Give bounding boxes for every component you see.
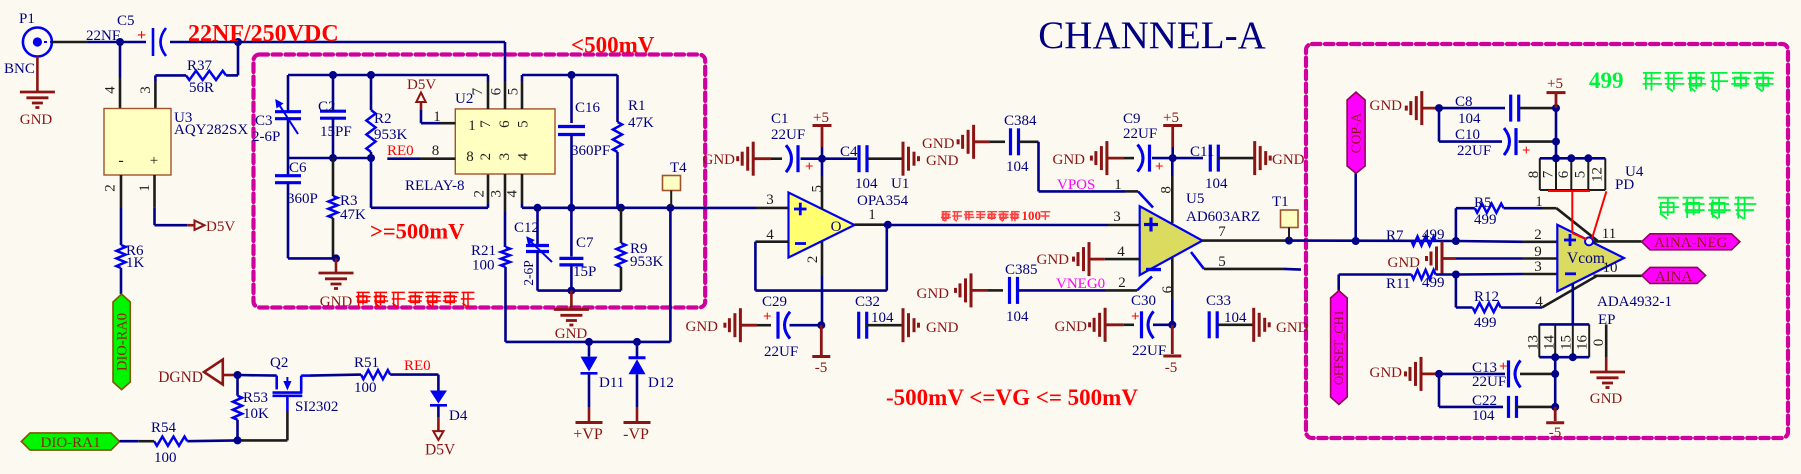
svg-text:104: 104 bbox=[1205, 176, 1228, 192]
svg-text:COP-A: COP-A bbox=[1349, 113, 1364, 154]
svg-text:360PF: 360PF bbox=[571, 143, 610, 159]
svg-text:C30: C30 bbox=[1131, 293, 1156, 309]
svg-text:GND: GND bbox=[1590, 391, 1623, 407]
svg-text:GND: GND bbox=[686, 319, 719, 335]
svg-text:GND: GND bbox=[320, 294, 353, 310]
svg-text:5: 5 bbox=[1573, 171, 1589, 179]
svg-text:R51: R51 bbox=[354, 355, 379, 371]
svg-text:Q2: Q2 bbox=[270, 355, 288, 371]
svg-text:953K: 953K bbox=[374, 127, 408, 143]
svg-text:14: 14 bbox=[1541, 335, 1557, 351]
svg-text:+: + bbox=[805, 159, 814, 175]
svg-text:-5: -5 bbox=[1549, 425, 1562, 441]
svg-text:9: 9 bbox=[1534, 244, 1542, 260]
svg-text:22UF: 22UF bbox=[1457, 143, 1491, 159]
svg-text:15PF: 15PF bbox=[320, 124, 352, 140]
svg-text:2: 2 bbox=[478, 153, 494, 161]
svg-text:+: + bbox=[150, 153, 158, 169]
svg-text:4: 4 bbox=[102, 86, 118, 94]
svg-text:6: 6 bbox=[497, 120, 513, 128]
svg-text:2: 2 bbox=[805, 256, 821, 264]
svg-text:C16: C16 bbox=[575, 100, 601, 116]
svg-text:22UF: 22UF bbox=[1472, 374, 1506, 390]
svg-text:8: 8 bbox=[466, 149, 474, 165]
svg-text:+: + bbox=[1155, 159, 1164, 175]
svg-text:22UF: 22UF bbox=[764, 344, 798, 360]
svg-text:2: 2 bbox=[1118, 275, 1126, 291]
svg-text:GND: GND bbox=[703, 152, 736, 168]
svg-text:R54: R54 bbox=[151, 420, 177, 436]
svg-text:GND: GND bbox=[1272, 152, 1305, 168]
svg-text:C33: C33 bbox=[1206, 293, 1231, 309]
svg-text:OPA354: OPA354 bbox=[857, 193, 909, 209]
svg-text:22NF/250VDC: 22NF/250VDC bbox=[188, 21, 339, 47]
svg-text:C11: C11 bbox=[1190, 144, 1214, 160]
svg-text:6: 6 bbox=[1556, 170, 1572, 178]
svg-text:499: 499 bbox=[1474, 212, 1497, 228]
svg-text:2: 2 bbox=[472, 190, 488, 198]
svg-text:C1: C1 bbox=[771, 111, 789, 127]
svg-text:4: 4 bbox=[1117, 244, 1125, 260]
svg-text:499: 499 bbox=[1422, 227, 1445, 243]
svg-text:GND: GND bbox=[1037, 252, 1070, 268]
svg-text:OFFSET_CH1: OFFSET_CH1 bbox=[1332, 310, 1346, 385]
svg-text:-500mV <=VG <= 500mV: -500mV <=VG <= 500mV bbox=[886, 385, 1138, 410]
svg-text:O: O bbox=[831, 219, 842, 235]
svg-text:3: 3 bbox=[1534, 259, 1542, 275]
svg-text:C3: C3 bbox=[255, 113, 273, 129]
svg-text:-5: -5 bbox=[1165, 360, 1178, 376]
svg-text:RELAY-8: RELAY-8 bbox=[405, 178, 464, 194]
svg-text:100: 100 bbox=[1022, 208, 1042, 223]
svg-text:15P: 15P bbox=[573, 264, 596, 280]
svg-text:13: 13 bbox=[1526, 335, 1542, 350]
svg-text:T4: T4 bbox=[670, 160, 687, 176]
svg-text:RE0: RE0 bbox=[387, 143, 414, 159]
svg-text:T1: T1 bbox=[1272, 194, 1289, 210]
svg-text:104: 104 bbox=[1006, 309, 1029, 325]
svg-text:499: 499 bbox=[1589, 68, 1624, 93]
svg-text:2-6P: 2-6P bbox=[521, 260, 536, 286]
svg-text:100: 100 bbox=[154, 450, 177, 466]
svg-text:-: - bbox=[118, 152, 123, 169]
svg-text:104: 104 bbox=[1472, 408, 1495, 424]
svg-text:U1: U1 bbox=[891, 176, 909, 192]
svg-text:P1: P1 bbox=[19, 11, 35, 27]
svg-text:5: 5 bbox=[506, 88, 522, 96]
svg-text:4: 4 bbox=[1535, 294, 1543, 310]
svg-text:3: 3 bbox=[488, 190, 504, 198]
svg-text:C9: C9 bbox=[1123, 111, 1141, 127]
svg-text:C6: C6 bbox=[289, 160, 307, 176]
svg-text:D5V: D5V bbox=[425, 442, 456, 459]
svg-text:104: 104 bbox=[871, 310, 894, 326]
svg-text:C5: C5 bbox=[117, 13, 135, 29]
svg-text:GND: GND bbox=[20, 112, 53, 128]
svg-text:ADA4932-1: ADA4932-1 bbox=[1597, 294, 1672, 310]
svg-text:-VP: -VP bbox=[623, 426, 649, 443]
svg-text:10: 10 bbox=[1603, 260, 1618, 276]
svg-text:GND: GND bbox=[926, 153, 959, 169]
svg-text:DGND: DGND bbox=[158, 369, 203, 386]
svg-text:1K: 1K bbox=[126, 255, 145, 271]
svg-text:C32: C32 bbox=[855, 294, 880, 310]
svg-text:22UF: 22UF bbox=[1123, 126, 1157, 142]
svg-text:22NF: 22NF bbox=[86, 28, 120, 44]
svg-text:+: + bbox=[137, 27, 146, 44]
svg-text:6: 6 bbox=[1160, 285, 1176, 293]
svg-text:11: 11 bbox=[1602, 226, 1616, 242]
svg-text:GND: GND bbox=[1276, 320, 1309, 336]
svg-text:R5: R5 bbox=[1474, 195, 1492, 211]
svg-text:7: 7 bbox=[470, 87, 486, 95]
svg-text:+: + bbox=[763, 309, 772, 325]
svg-text:C7: C7 bbox=[576, 235, 594, 251]
svg-text:1: 1 bbox=[468, 118, 476, 134]
svg-text:22UF: 22UF bbox=[1132, 343, 1166, 359]
svg-text:3: 3 bbox=[766, 192, 774, 208]
svg-text:3: 3 bbox=[1113, 209, 1121, 225]
svg-text:GND: GND bbox=[1370, 365, 1403, 381]
svg-text:499: 499 bbox=[1422, 275, 1445, 291]
svg-text:AINA: AINA bbox=[1655, 269, 1693, 285]
svg-text:RE0: RE0 bbox=[404, 358, 431, 374]
svg-text:3: 3 bbox=[138, 86, 154, 94]
svg-text:47K: 47K bbox=[340, 207, 366, 223]
svg-text:D11: D11 bbox=[599, 375, 624, 391]
svg-text:360P: 360P bbox=[287, 191, 318, 207]
svg-text:C385: C385 bbox=[1005, 262, 1038, 278]
svg-text:104: 104 bbox=[1006, 159, 1029, 175]
svg-text:R12: R12 bbox=[1474, 289, 1499, 305]
svg-text:C10: C10 bbox=[1455, 127, 1480, 143]
svg-text:<500mV: <500mV bbox=[571, 33, 655, 58]
svg-text:AQY282SX: AQY282SX bbox=[174, 122, 248, 138]
svg-text:D5V: D5V bbox=[206, 219, 235, 235]
svg-text:DIO-RA0: DIO-RA0 bbox=[115, 313, 131, 371]
svg-text:GND: GND bbox=[917, 286, 950, 302]
svg-text:953K: 953K bbox=[630, 254, 664, 270]
svg-text:7: 7 bbox=[478, 120, 494, 128]
svg-text:8: 8 bbox=[432, 143, 440, 159]
svg-text:1: 1 bbox=[868, 207, 876, 223]
svg-text:8: 8 bbox=[1158, 186, 1174, 194]
svg-text:104: 104 bbox=[855, 176, 878, 192]
svg-text:100: 100 bbox=[354, 380, 377, 396]
svg-text:+VP: +VP bbox=[573, 426, 603, 443]
svg-text:DIO-RA1: DIO-RA1 bbox=[41, 435, 101, 451]
svg-text:>=500mV: >=500mV bbox=[370, 219, 464, 244]
svg-text:7: 7 bbox=[1541, 170, 1557, 178]
svg-text:15: 15 bbox=[1558, 335, 1574, 350]
svg-text:AINA-NEG: AINA-NEG bbox=[1654, 235, 1727, 251]
svg-text:0: 0 bbox=[1591, 339, 1607, 347]
svg-text:56R: 56R bbox=[189, 80, 214, 96]
svg-text:4: 4 bbox=[766, 227, 774, 243]
svg-text:VNEG0: VNEG0 bbox=[1056, 276, 1105, 292]
svg-text:1: 1 bbox=[1114, 177, 1122, 193]
svg-text:2: 2 bbox=[103, 184, 119, 192]
svg-text:R1: R1 bbox=[628, 98, 646, 114]
svg-text:+5: +5 bbox=[1163, 110, 1179, 126]
svg-text:10K: 10K bbox=[243, 406, 269, 422]
svg-text:+5: +5 bbox=[813, 110, 829, 126]
svg-text:C384: C384 bbox=[1004, 113, 1037, 129]
svg-text:GND: GND bbox=[555, 326, 588, 342]
svg-text:GND: GND bbox=[1053, 152, 1086, 168]
svg-text:R53: R53 bbox=[243, 390, 268, 406]
svg-text:+: + bbox=[1522, 143, 1531, 159]
svg-text:5: 5 bbox=[516, 120, 532, 128]
svg-text:GND: GND bbox=[1388, 255, 1421, 271]
svg-text:7: 7 bbox=[1218, 224, 1226, 240]
svg-text:R11: R11 bbox=[1386, 276, 1410, 292]
svg-text:2: 2 bbox=[1534, 227, 1542, 243]
svg-text:47K: 47K bbox=[628, 115, 654, 131]
svg-text:D4: D4 bbox=[449, 408, 468, 424]
svg-text:6: 6 bbox=[488, 87, 504, 95]
svg-text:AD603ARZ: AD603ARZ bbox=[1186, 209, 1260, 225]
svg-text:R37: R37 bbox=[187, 58, 213, 74]
svg-text:4: 4 bbox=[516, 152, 532, 160]
svg-text:VPOS: VPOS bbox=[1057, 177, 1095, 193]
svg-text:22UF: 22UF bbox=[771, 127, 805, 143]
svg-text:Vcom: Vcom bbox=[1567, 250, 1605, 267]
svg-text:C8: C8 bbox=[1455, 94, 1473, 110]
svg-text:499: 499 bbox=[1474, 315, 1497, 331]
svg-text:GND: GND bbox=[926, 320, 959, 336]
svg-text:GND: GND bbox=[922, 136, 955, 152]
svg-text:C22: C22 bbox=[1472, 393, 1497, 409]
svg-text:3: 3 bbox=[497, 153, 513, 161]
svg-text:+: + bbox=[1499, 359, 1508, 375]
svg-text:GND: GND bbox=[1055, 319, 1088, 335]
svg-text:C12: C12 bbox=[514, 220, 539, 236]
svg-text:PD: PD bbox=[1615, 177, 1634, 193]
svg-text:-5: -5 bbox=[815, 360, 828, 376]
svg-text:R7: R7 bbox=[1386, 228, 1404, 244]
svg-text:+: + bbox=[1131, 309, 1140, 325]
svg-text:D5V: D5V bbox=[407, 77, 436, 93]
svg-text:104: 104 bbox=[1458, 111, 1481, 127]
svg-text:4: 4 bbox=[505, 189, 521, 197]
svg-text:1: 1 bbox=[433, 109, 441, 125]
svg-text:R2: R2 bbox=[374, 111, 392, 127]
svg-text:2-6P: 2-6P bbox=[252, 129, 280, 145]
svg-text:CHANNEL-A: CHANNEL-A bbox=[1038, 14, 1265, 57]
svg-text:5: 5 bbox=[1218, 254, 1226, 270]
svg-text:D12: D12 bbox=[648, 375, 674, 391]
svg-text:C4: C4 bbox=[840, 144, 858, 160]
svg-text:1: 1 bbox=[137, 184, 153, 192]
svg-text:12: 12 bbox=[1590, 167, 1606, 182]
svg-text:5: 5 bbox=[810, 185, 826, 193]
svg-text:C29: C29 bbox=[762, 294, 787, 310]
svg-text:16: 16 bbox=[1575, 335, 1591, 351]
svg-text:BNC: BNC bbox=[4, 61, 35, 77]
svg-text:GND: GND bbox=[1370, 98, 1403, 114]
svg-text:1: 1 bbox=[1535, 194, 1543, 210]
svg-text:+5: +5 bbox=[1547, 76, 1563, 92]
svg-text:U5: U5 bbox=[1186, 191, 1204, 207]
svg-text:100: 100 bbox=[472, 258, 495, 274]
svg-text:C2: C2 bbox=[318, 99, 336, 115]
svg-text:SI2302: SI2302 bbox=[295, 399, 338, 415]
